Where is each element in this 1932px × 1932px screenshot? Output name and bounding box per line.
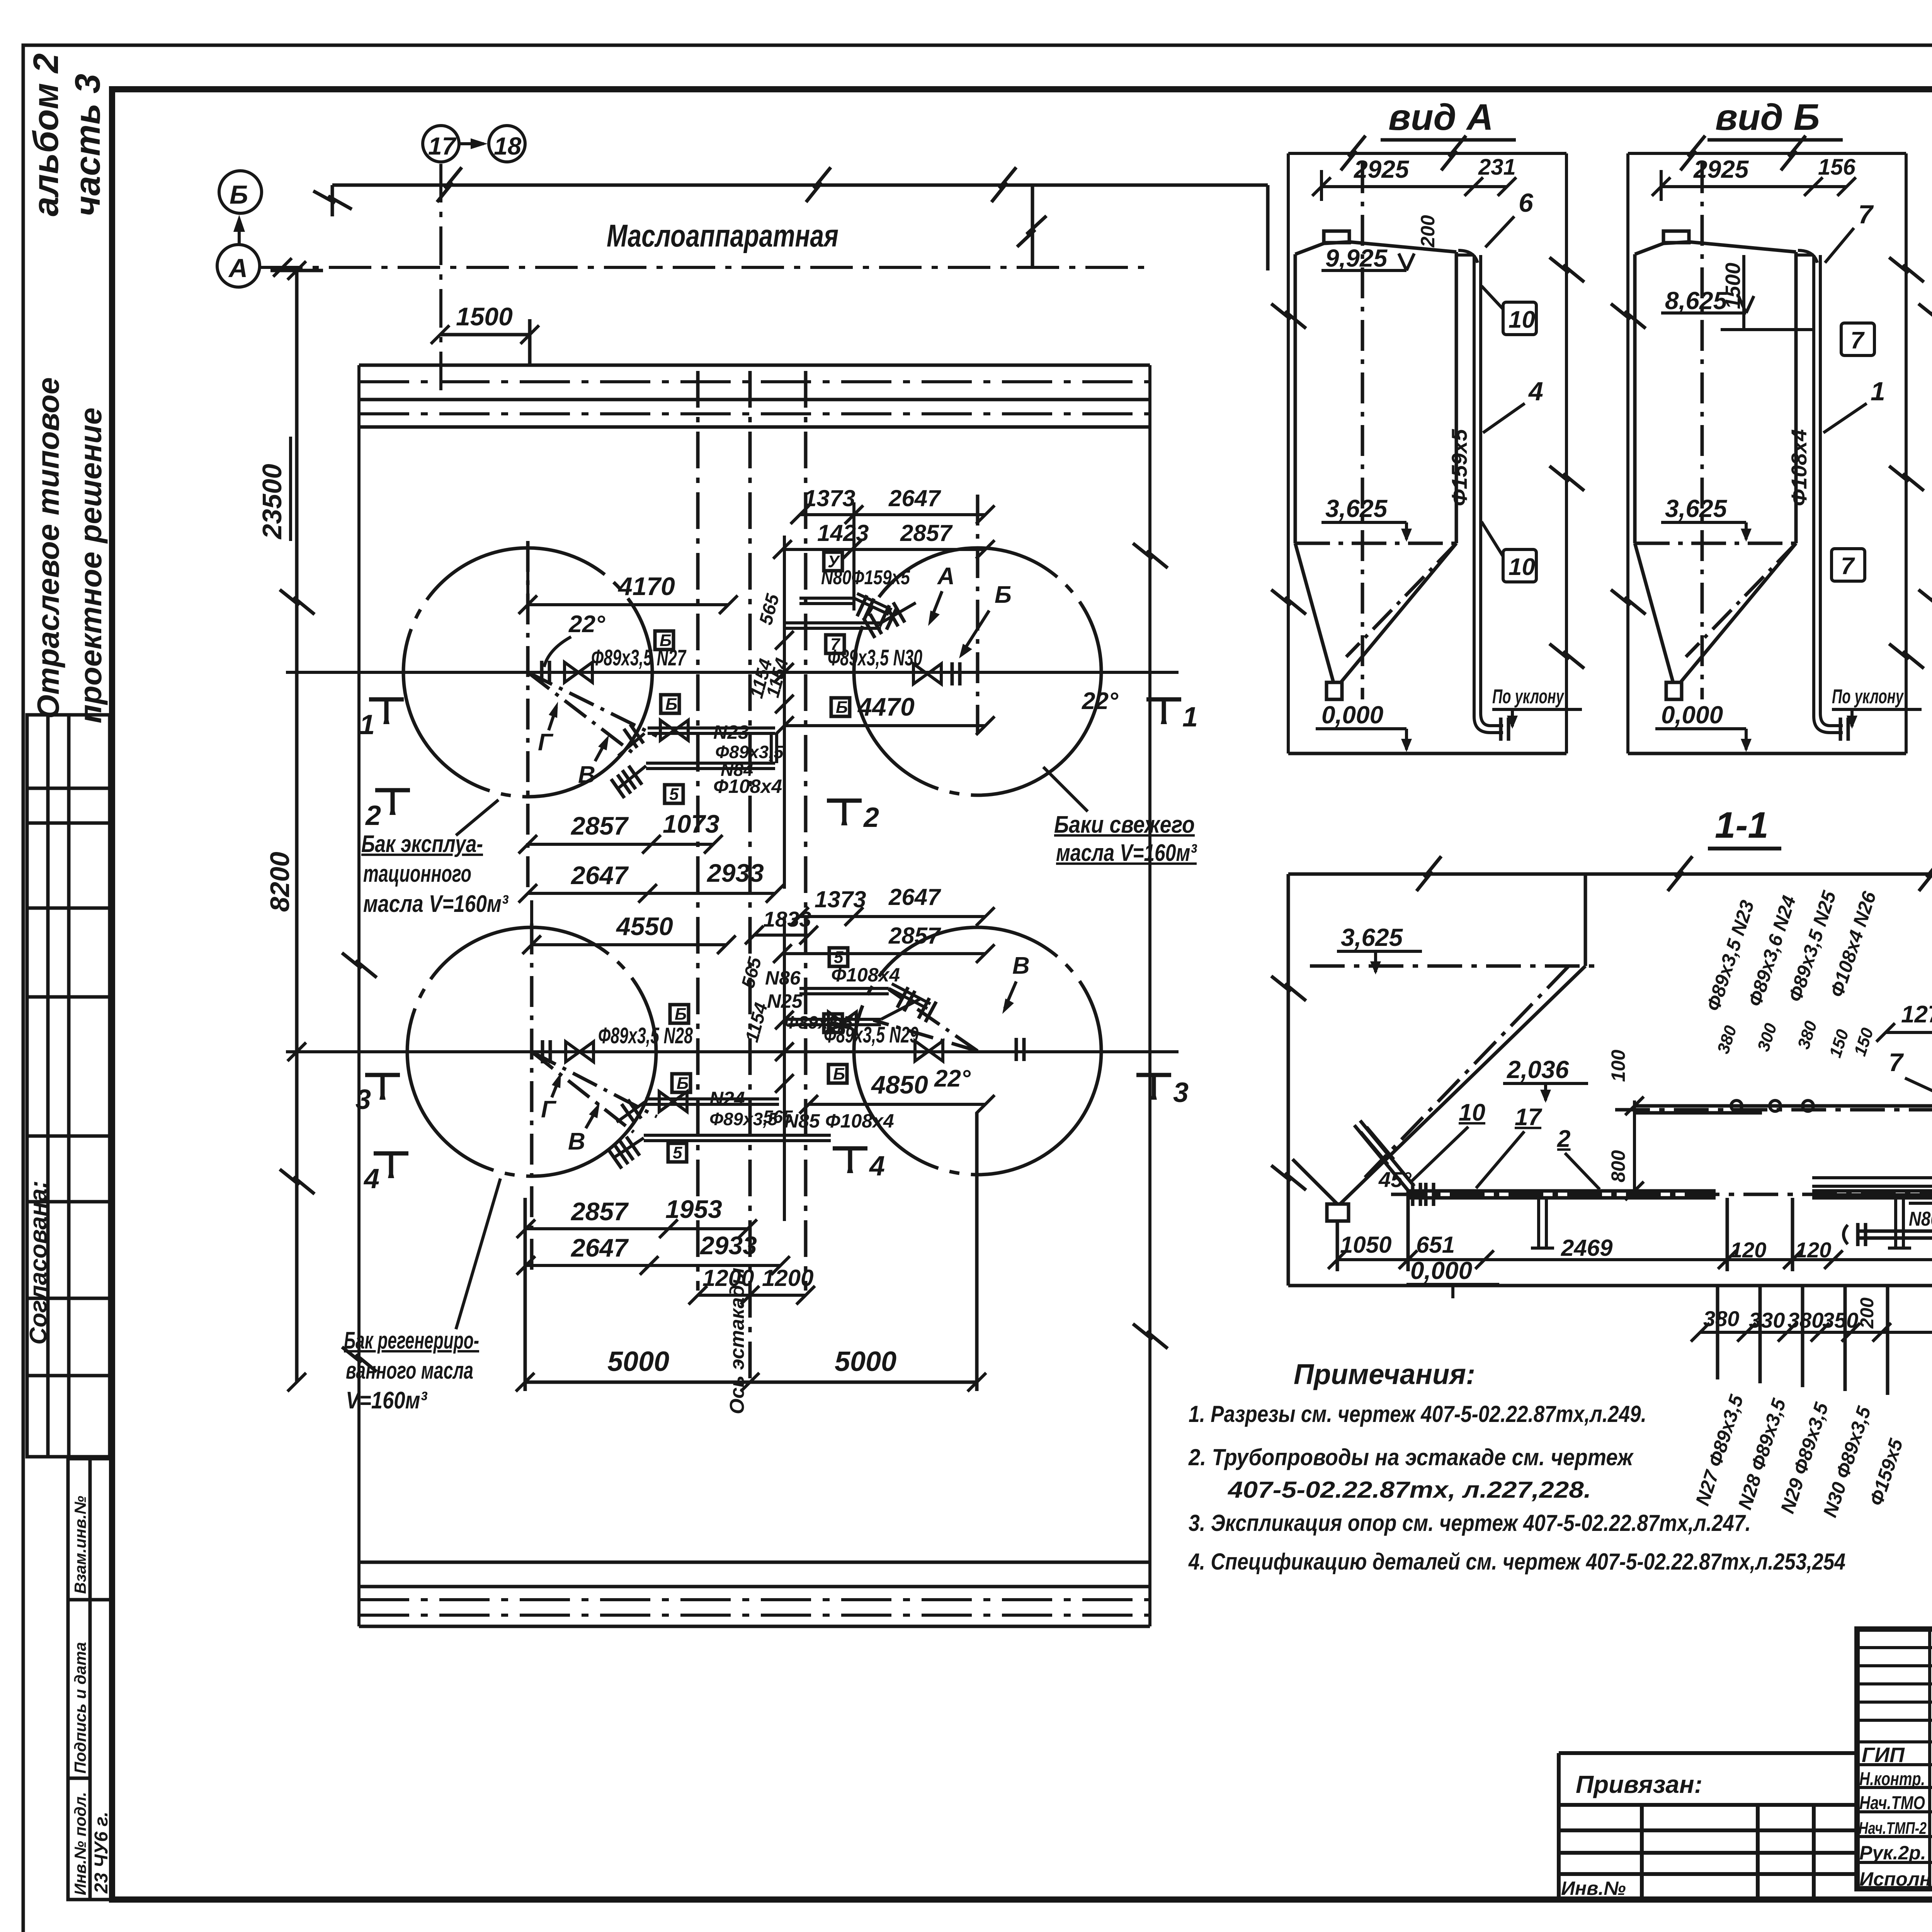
svg-text:350: 350 [1822,1308,1858,1332]
svg-text:N85 Ф108х4: N85 Ф108х4 [784,1110,894,1132]
svg-text:часть 3: часть 3 [68,74,107,216]
grid bubble 18 [489,126,525,162]
branch pipes T4 [799,984,930,1009]
tank roof hatch [1324,231,1349,243]
grid bubble B [219,171,262,213]
tank centerline [1361,162,1364,699]
svg-text:4. Спецификацию деталей см. ч: 4. Спецификацию деталей см. чертеж 407-5… [1188,1549,1845,1575]
main pipe run [1408,1191,1932,1198]
tank outline [1635,242,1796,543]
svg-text:Ф89х3,5: Ф89х3,5 [715,742,784,762]
left diagonal pipe [1354,1121,1414,1191]
svg-text:231: 231 [1478,155,1516,180]
bottom dim row1 [1337,1258,1932,1261]
svg-text:ванного масла: ванного масла [346,1357,473,1384]
svg-text:407-5-02.22.87тх, л.227,228.: 407-5-02.22.87тх, л.227,228. [1228,1477,1591,1503]
svg-text:156: 156 [1818,155,1856,180]
tank foot [1327,682,1342,699]
svg-text:100: 100 [1607,1049,1629,1082]
svg-text:7: 7 [1841,553,1855,580]
T4 diag leaders [873,989,978,1051]
pipe N24 run [617,1099,779,1122]
view вид В group [1918,97,1932,753]
svg-text:Инв.№ подл.: Инв.№ подл. [71,1792,89,1895]
svg-text:1200: 1200 [762,1265,813,1291]
top road band [359,365,1150,427]
svg-text:2647: 2647 [888,485,941,511]
tank roof hatch [1663,231,1689,243]
svg-text:Маслоаппаратная: Маслоаппаратная [607,218,838,253]
tank cone [1295,543,1456,682]
svg-text:вид Б: вид Б [1715,97,1820,138]
svg-text:7: 7 [830,635,841,654]
axis A dash-dot line [260,266,1151,269]
svg-text:9,925: 9,925 [1325,244,1388,272]
dim extension verticals [1337,1030,1932,1395]
riser bundle [1812,874,1932,1203]
pipe N23 run [648,728,775,733]
svg-text:1500: 1500 [456,302,513,331]
tank centerline [1701,162,1704,699]
title block grid [1857,1629,1932,1889]
axis 17 dash-dot vertical [439,164,442,390]
svg-text:Н.контр.: Н.контр. [1859,1769,1925,1789]
svg-text:1373: 1373 [804,485,855,511]
wall dimension line [332,185,1268,270]
svg-text:4850: 4850 [871,1070,928,1099]
svg-text:2: 2 [863,802,879,833]
tank foot [1666,682,1682,699]
svg-text:2: 2 [1557,1126,1570,1152]
svg-text:2: 2 [365,800,381,831]
lower pipe N80 [1859,1203,1932,1238]
svg-text:Примечания:: Примечания: [1294,1358,1475,1390]
view вид Б group [1611,97,1924,753]
callout boxes B row2 [670,1005,689,1023]
svg-text:380: 380 [1787,1308,1823,1332]
support post left [1531,1198,1554,1248]
svg-text:22°: 22° [1082,688,1119,714]
leader tanks fresh label [1043,767,1088,811]
dim boundary lines [1288,153,1566,753]
svg-text:4: 4 [869,1151,885,1182]
vertical pipe link [771,733,777,763]
svg-text:8,625: 8,625 [1665,287,1728,315]
callout box 5 top [665,785,683,803]
svg-text:120: 120 [1730,1238,1766,1262]
svg-text:тационного: тационного [363,861,471,887]
pipe section circles [1731,1100,1742,1111]
svg-text:масла V=160м³: масла V=160м³ [363,891,509,917]
svg-text:В: В [578,762,595,788]
svg-text:4170: 4170 [617,572,675,600]
upper pipe run [1634,1106,1932,1113]
callout box 10 lower [1503,549,1536,582]
callout box 5 bot [829,948,848,966]
svg-text:1373: 1373 [815,886,866,912]
svg-text:1: 1 [1182,702,1198,733]
corridor axis verticals [698,371,806,1382]
callout box 7 mid [826,635,844,653]
svg-text:Б: Б [230,180,248,209]
svg-text:вид А: вид А [1388,97,1493,138]
svg-text:Б: Б [995,582,1012,608]
svg-text:Б: Б [660,631,672,650]
svg-text:Привязан:: Привязан: [1576,1770,1702,1798]
callout box 10 upper [1503,302,1536,335]
T1 diag leaders [528,672,657,753]
svg-text:альбом 2: альбом 2 [26,53,66,216]
section mark 3 left [365,1075,400,1100]
inlet step 1500 [1721,255,1814,330]
svg-text:5: 5 [673,1143,682,1162]
svg-text:1: 1 [1871,377,1885,406]
svg-text:120: 120 [1795,1238,1831,1262]
section mark 2 left [375,790,410,815]
section mark 4 left [374,1153,408,1178]
svg-text:проектное решение: проектное решение [73,408,108,723]
svg-text:2647: 2647 [888,884,941,910]
callout box U top [824,552,842,571]
arrow 17 to 18 [460,142,484,145]
svg-text:5000: 5000 [835,1346,896,1377]
plan left boundary wall [357,365,361,1626]
section mark 1 right [1146,699,1181,724]
svg-text:200: 200 [1857,1298,1878,1329]
svg-text:17: 17 [1515,1104,1542,1131]
svg-text:23 ЧУ6 г.: 23 ЧУ6 г. [91,1811,112,1894]
section mark 4 mid [833,1148,867,1173]
svg-text:1273: 1273 [1901,1001,1932,1028]
branch pipe to T2 [799,594,892,614]
svg-text:45°: 45° [1378,1167,1412,1192]
svg-text:0,000: 0,000 [1321,701,1383,729]
pipe N84 run [618,763,775,788]
svg-text:5: 5 [669,785,679,804]
callout box B1 [655,631,673,650]
svg-text:23500: 23500 [257,464,287,540]
valve V29 [915,1041,943,1061]
svg-text:1953: 1953 [665,1195,722,1223]
tank T1 plan circle [403,548,652,797]
svg-text:Подпись и дата: Подпись и дата [71,1642,89,1774]
svg-text:4470: 4470 [857,692,915,721]
svg-text:Взам.инв.№: Взам.инв.№ [71,1496,89,1594]
tank cone dashdot [1346,543,1456,657]
bottom road band [359,1562,1150,1626]
svg-text:А: А [228,253,248,283]
svg-text:22°: 22° [934,1065,971,1092]
pipe axis row1 [286,671,1179,674]
svg-text:7: 7 [1858,200,1874,229]
svg-text:V=160м³: V=160м³ [346,1387,427,1414]
svg-text:Отраслевое типовое: Отраслевое типовое [31,377,65,719]
svg-text:8200: 8200 [265,852,295,912]
svg-text:5000: 5000 [607,1346,669,1377]
svg-text:Согласована:: Согласована: [25,1180,52,1345]
svg-text:3,625: 3,625 [1325,495,1388,522]
tank T3 plan circle [407,927,656,1176]
svg-text:По уклону: По уклону [1492,685,1565,708]
svg-text:0,000: 0,000 [1661,701,1723,729]
left vertical dimension line [270,270,323,1382]
svg-text:2647: 2647 [570,1233,629,1262]
branch pipe 2 to T2 [784,603,916,628]
bottom dim row2 [1700,1331,1932,1334]
svg-text:2857: 2857 [900,520,953,546]
tank cone dashdot [1686,543,1796,657]
margin inventory strip [68,1459,112,1900]
left cone foot [1327,1204,1349,1221]
svg-text:2857: 2857 [570,811,629,840]
svg-text:Г: Г [541,1096,557,1123]
svg-text:Исполн.: Исполн. [1859,1868,1932,1890]
svg-text:Б: Б [833,1065,845,1083]
svg-text:Б: Б [665,695,677,714]
svg-text:4550: 4550 [616,912,673,940]
section mark 2 mid [827,801,862,825]
ground line [1288,752,1566,755]
svg-text:200: 200 [1417,215,1439,248]
svg-text:4: 4 [1528,377,1543,406]
svg-text:Нач.ТМО: Нач.ТМО [1859,1793,1925,1813]
title block outer [1857,1629,1932,1889]
svg-text:Инв.№: Инв.№ [1561,1878,1626,1899]
svg-text:3: 3 [355,1084,371,1115]
svg-text:4: 4 [363,1163,379,1194]
svg-text:2933: 2933 [706,859,764,887]
svg-text:3,625: 3,625 [1665,495,1728,522]
pipe top bend [1796,250,1817,263]
svg-text:Ф89х3,5 N28: Ф89х3,5 N28 [598,1023,693,1048]
svg-text:Бак регенериро-: Бак регенериро- [344,1327,479,1354]
pipe axis row2 [286,1050,1179,1053]
svg-text:А: А [937,563,955,590]
tank cone [1635,543,1796,682]
privyazan box [1559,1753,1857,1900]
plan right boundary wall [1148,365,1151,1626]
svg-text:Баки свежего: Баки свежего [1054,811,1195,838]
svg-text:2469: 2469 [1561,1235,1613,1261]
svg-text:3. Экспликация опор см. черте: 3. Экспликация опор см. чертеж 407-5-02.… [1189,1510,1751,1536]
support post right [1888,1198,1911,1248]
tank T2 plan circle [854,548,1101,795]
svg-text:Нач.ТМП-2: Нач.ТМП-2 [1859,1819,1927,1838]
section boundary [1288,874,1932,1286]
svg-text:Ф108х4: Ф108х4 [831,964,900,986]
grid bubble A [217,245,260,287]
svg-text:2933: 2933 [699,1231,757,1260]
tank centerline T2 [976,495,980,734]
svg-text:N80 Ф159х5: N80 Ф159х5 [1909,1208,1932,1230]
section mark 3 right [1136,1075,1171,1100]
tank shoulder level [1635,542,1796,545]
svg-text:10: 10 [1509,554,1535,580]
svg-text:380: 380 [1703,1306,1739,1331]
svg-text:N23: N23 [713,721,749,743]
svg-text:N80Ф159х5: N80Ф159х5 [821,566,910,589]
tank T4 plan circle [854,927,1101,1175]
svg-text:7: 7 [1889,1048,1904,1077]
svg-text:1833: 1833 [763,907,811,931]
pipe top bend [1456,250,1478,263]
corridor dim vertical bot [783,917,786,1221]
valve V30 [913,664,941,684]
svg-text:Бак эксплуа-: Бак эксплуа- [361,831,483,857]
svg-text:масла V=160м³: масла V=160м³ [1056,840,1197,866]
callout box B2 [661,695,679,713]
svg-text:22°: 22° [568,611,605,638]
svg-text:2647: 2647 [570,861,629,889]
svg-text:В: В [568,1128,585,1155]
svg-text:3,625: 3,625 [1341,923,1403,951]
svg-text:1050: 1050 [1340,1232,1391,1258]
svg-text:2,036: 2,036 [1507,1056,1569,1083]
svg-text:Ось эстакады: Ось эстакады [726,1268,748,1414]
svg-text:Рук.2р.: Рук.2р. [1859,1842,1926,1864]
svg-text:330: 330 [1749,1308,1785,1332]
leader tank T3 label [456,1179,500,1329]
svg-text:Ф89х3,5 N30: Ф89х3,5 N30 [828,645,922,670]
svg-text:1073: 1073 [663,810,719,838]
callout box B3 [831,698,850,716]
arrow A to B [238,219,241,244]
tank outline [1295,242,1456,543]
svg-text:800: 800 [1607,1150,1629,1182]
leader tank T1 label [456,800,498,835]
riser pipe [1814,255,1843,733]
svg-text:Г: Г [538,729,554,756]
valve V28 [566,1042,594,1062]
svg-text:1-1: 1-1 [1715,804,1769,846]
svg-text:Ф108х4: Ф108х4 [713,776,782,797]
valve V27 [565,662,592,682]
svg-text:2857: 2857 [570,1197,629,1226]
dim boundary lines [1628,153,1906,753]
svg-text:2. Трубопроводы на эстакаде с: 2. Трубопроводы на эстакаде см. чертеж [1188,1444,1634,1470]
svg-text:Б: Б [675,1005,687,1024]
svg-text:10: 10 [1459,1099,1485,1126]
T3 diag leaders [532,1052,657,1132]
callout box 7 upper [1841,323,1874,355]
svg-text:6: 6 [1519,188,1534,218]
tank centerline T3 [530,923,534,1275]
svg-text:1. Разрезы см. чертеж 407-5-0: 1. Разрезы см. чертеж 407-5-02.22.87тх,л… [1189,1401,1646,1427]
section mark 1 left [369,699,404,724]
wall tick with arrow [1031,185,1034,267]
svg-text:17: 17 [428,132,457,160]
view вид А group [1271,97,1584,753]
svg-text:1: 1 [359,709,375,740]
svg-text:18: 18 [494,132,522,160]
tank shoulder level [1295,542,1456,545]
left tank cone [1293,874,1585,1204]
svg-text:Ф108х4: Ф108х4 [1787,429,1811,506]
riser pipe [1474,255,1503,733]
margin approval table [27,715,110,1457]
tank centerline T1 [526,541,530,893]
svg-text:10: 10 [1509,306,1535,333]
svg-text:3: 3 [1173,1077,1189,1108]
corridor dim vertical [784,502,854,889]
grid bubble 17 [423,126,459,162]
svg-text:Б: Б [828,1014,840,1033]
svg-text:Ф159х5: Ф159х5 [1447,429,1471,506]
svg-text:Б: Б [836,698,848,717]
svg-text:651: 651 [1416,1232,1455,1258]
ground line [1628,752,1906,755]
callout box 7 lower [1832,549,1865,581]
svg-text:ГИП: ГИП [1862,1743,1905,1767]
pipe N85 run [614,1135,831,1157]
svg-text:7: 7 [1850,327,1865,354]
svg-text:2857: 2857 [888,923,941,949]
svg-text:В: В [1012,952,1030,979]
svg-text:По уклону: По уклону [1832,685,1904,708]
